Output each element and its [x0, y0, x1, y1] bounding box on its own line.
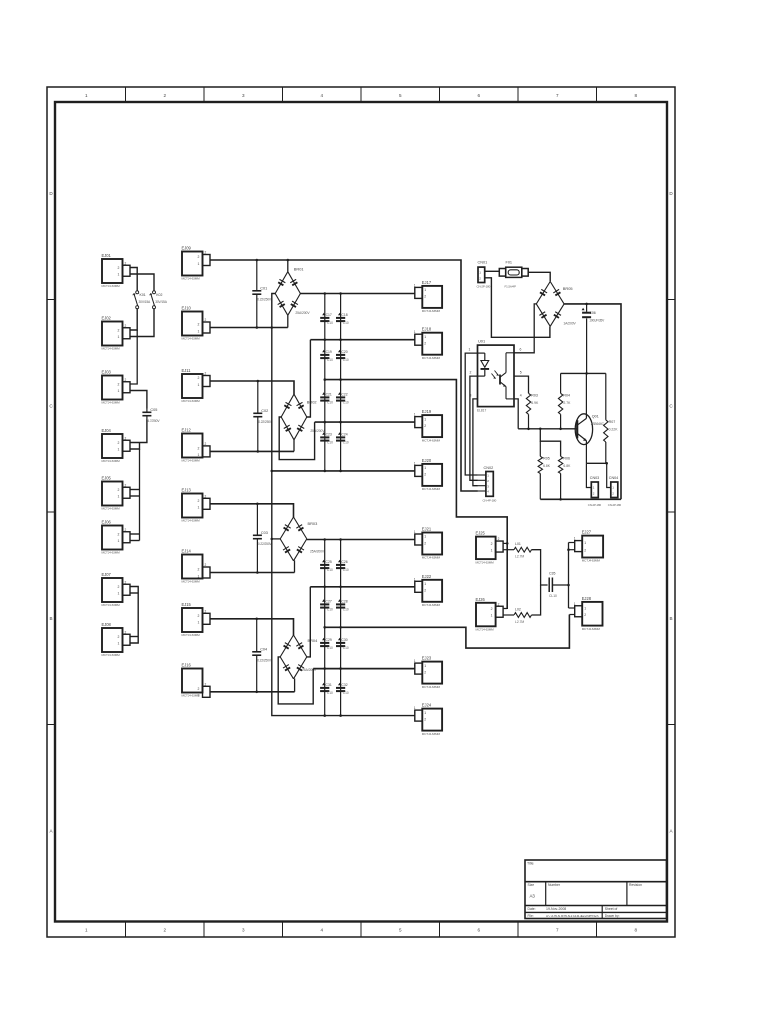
wire EJ26 pin1 to L02: [504, 614, 514, 616]
wire ground rail: [540, 498, 621, 500]
wire: [131, 587, 139, 644]
svg-text:2: 2: [491, 607, 493, 611]
svg-text:EJ27: EJ27: [582, 530, 592, 535]
svg-text:1: 1: [491, 548, 493, 552]
wire BR02 left loop: [279, 417, 314, 460]
svg-text:C10: C10: [327, 401, 333, 405]
svg-text:EJ02: EJ02: [102, 316, 112, 321]
svg-text:Date:: Date:: [528, 907, 536, 911]
svg-text:CN02: CN02: [484, 466, 494, 470]
svg-text:MCTJ4-63MM: MCTJ4-63MM: [102, 401, 121, 405]
svg-text:1: 1: [198, 621, 200, 625]
svg-text:2: 2: [424, 295, 426, 299]
connector EJ19: [414, 409, 442, 442]
junction: [339, 626, 342, 629]
svg-text:EJ12: EJ12: [182, 428, 192, 433]
capacitor C30: [336, 638, 349, 650]
svg-text:1: 1: [118, 389, 120, 393]
svg-text:1: 1: [469, 348, 471, 352]
svg-text:30V/15A: 30V/15A: [155, 300, 168, 304]
wire CN03 feed: [586, 463, 591, 487]
svg-text:1: 1: [491, 614, 493, 618]
capacitor C06: [582, 304, 605, 374]
wire EJ28 pin1: [569, 607, 575, 609]
svg-text:2: 2: [491, 542, 493, 546]
wire BR05 left to U01 pin6: [514, 304, 536, 353]
svg-text:Drawn by:: Drawn by:: [605, 914, 620, 918]
svg-text:EJ01: EJ01: [102, 253, 112, 258]
svg-text:2: 2: [198, 687, 200, 691]
svg-text:MCTJ4-63MM: MCTJ4-63MM: [422, 685, 441, 689]
svg-text:C24: C24: [341, 433, 347, 437]
svg-text:2: 2: [125, 324, 127, 328]
wire BR05 output rail: [564, 304, 621, 499]
connector EJ23: [414, 656, 442, 689]
svg-text:EJ18: EJ18: [422, 327, 432, 332]
svg-text:C27: C27: [326, 600, 332, 604]
svg-text:4: 4: [320, 93, 323, 98]
connector EJ28: [574, 596, 603, 631]
svg-text:2: 2: [125, 528, 127, 532]
junction: [323, 626, 326, 629]
svg-text:Title: Title: [527, 862, 534, 866]
svg-text:MCTJ4-63MM: MCTJ4-63MM: [182, 459, 201, 463]
capacitor C05: [142, 408, 160, 423]
svg-text:100UF/35V: 100UF/35V: [589, 319, 605, 323]
svg-text:MCTJ4-63MM: MCTJ4-63MM: [422, 309, 441, 313]
svg-text:C10: C10: [327, 358, 333, 362]
svg-text:C10: C10: [343, 568, 349, 572]
bridge rectifier BR02: [281, 394, 325, 440]
svg-text:5: 5: [520, 371, 522, 375]
border column ticks and numbers: [85, 87, 638, 937]
wire cap bank bus upper right: [340, 294, 342, 471]
svg-text:0.22/250V: 0.22/250V: [258, 420, 273, 424]
svg-text:2: 2: [198, 499, 200, 503]
wire EJ25 pin1 to L01: [504, 549, 514, 551]
svg-text:C10: C10: [327, 691, 333, 695]
wire: [293, 440, 295, 452]
svg-text:Number: Number: [548, 883, 561, 887]
wire U01 pin2 to CN02: [470, 376, 478, 480]
svg-text:MCTJ4-63MM: MCTJ4-63MM: [102, 551, 121, 555]
capacitor C04: [252, 619, 272, 692]
svg-text:MCTJ4-63MM: MCTJ4-63MM: [476, 628, 495, 632]
svg-text:EJ13: EJ13: [182, 488, 192, 493]
svg-text:1: 1: [414, 413, 416, 417]
svg-text:EJ10: EJ10: [182, 306, 192, 311]
connector EJ20: [414, 458, 442, 491]
svg-text:EJ03: EJ03: [102, 370, 112, 375]
wire EJ28 pin2: [569, 614, 574, 616]
svg-text:2SB646C: 2SB646C: [591, 422, 605, 426]
wire U01 pin5 to R03: [514, 376, 529, 393]
wire CN04 feed: [607, 463, 611, 487]
svg-text:EJ06: EJ06: [102, 520, 112, 525]
svg-text:25A/200V: 25A/200V: [295, 311, 310, 315]
connector EJ22: [414, 574, 442, 607]
connector EJ11: [182, 368, 211, 403]
connector CN04: [608, 476, 622, 507]
svg-text:2: 2: [118, 328, 120, 332]
svg-text:1: 1: [118, 495, 120, 499]
svg-text:2: 2: [198, 447, 200, 451]
svg-text:25A/200V: 25A/200V: [310, 429, 325, 433]
wire L02 to C35 node: [532, 585, 541, 615]
resistor R04: [558, 393, 571, 414]
inductor L01: [514, 542, 532, 558]
svg-text:2: 2: [424, 717, 426, 721]
svg-text:2: 2: [125, 378, 127, 382]
wire: [287, 315, 289, 327]
bridge rectifier BR04: [280, 635, 318, 679]
connector EJ13: [182, 488, 211, 523]
wire lower midpoint tap: [325, 615, 570, 649]
resistor R06: [558, 456, 571, 473]
capacitor C28: [336, 599, 349, 611]
svg-text:1: 1: [424, 288, 426, 292]
wire: [131, 268, 138, 292]
svg-text:1: 1: [198, 262, 200, 266]
svg-text:C01: C01: [260, 287, 267, 291]
svg-text:30V/15A: 30V/15A: [139, 300, 152, 304]
svg-text:C06: C06: [589, 311, 595, 315]
svg-text:1: 1: [85, 93, 88, 98]
svg-text:MCTJ4-63MM: MCTJ4-63MM: [422, 356, 441, 360]
junction: [324, 421, 327, 424]
capacitor C26: [336, 560, 349, 572]
wire: [131, 330, 138, 384]
svg-text:EJ21: EJ21: [422, 527, 432, 532]
wire rail EJ20: [272, 470, 415, 472]
svg-text:6.8K: 6.8K: [563, 464, 571, 468]
wire EJ25 pin2: [504, 542, 508, 544]
svg-text:C10: C10: [343, 646, 349, 650]
svg-text:2: 2: [118, 441, 120, 445]
connector EJ05: [102, 476, 131, 511]
wire: [131, 309, 138, 331]
svg-text:2: 2: [498, 537, 500, 541]
connector EJ08: [102, 622, 131, 657]
svg-text:0.22K: 0.22K: [609, 428, 619, 432]
junction: [339, 338, 342, 341]
transistor Q01: [575, 373, 604, 463]
svg-text:L02: L02: [515, 607, 521, 611]
svg-text:5: 5: [399, 928, 402, 933]
wire: [294, 679, 296, 692]
svg-text:R06: R06: [563, 457, 570, 461]
svg-text:1: 1: [424, 335, 426, 339]
svg-text:C10: C10: [343, 441, 349, 445]
svg-text:EJ28: EJ28: [582, 596, 592, 601]
wire: [294, 560, 296, 572]
svg-text:2: 2: [125, 580, 127, 584]
wire R06 bottom: [560, 474, 562, 500]
svg-text:2: 2: [125, 630, 127, 634]
svg-text:2: 2: [118, 635, 120, 639]
svg-text:CN01: CN01: [478, 261, 488, 265]
svg-text:2.7K: 2.7K: [563, 401, 571, 405]
wire BR04 output: [307, 587, 311, 657]
svg-text:C28: C28: [341, 600, 347, 604]
wire EJ15: [210, 619, 294, 635]
switch K02: [149, 291, 167, 309]
svg-text:1: 1: [414, 330, 416, 334]
wire BR03 left stub: [272, 538, 280, 540]
svg-text:MCTJ4-63MM: MCTJ4-63MM: [422, 603, 441, 607]
svg-text:F01: F01: [506, 261, 513, 265]
svg-text:1: 1: [574, 537, 576, 541]
wire BR01 output: [300, 293, 414, 295]
svg-text:1: 1: [118, 273, 120, 277]
junction: [339, 586, 342, 589]
wire cap bank bus upper left: [324, 294, 326, 471]
svg-text:1A/200V: 1A/200V: [563, 321, 576, 325]
connector EJ15: [182, 602, 211, 637]
wire: [139, 449, 141, 541]
svg-text:4: 4: [320, 928, 323, 933]
svg-text:Size: Size: [528, 883, 535, 887]
svg-text:2: 2: [424, 342, 426, 346]
svg-text:2: 2: [198, 376, 200, 380]
svg-text:7: 7: [556, 93, 559, 98]
svg-text:C10: C10: [327, 568, 333, 572]
svg-text:2: 2: [198, 614, 200, 618]
connector EJ26: [476, 597, 504, 632]
wire C35 to EJ27/EJ28 bus: [552, 584, 568, 586]
svg-text:8: 8: [634, 93, 637, 98]
fuse F01: [499, 261, 528, 289]
wire rail EJ23: [313, 668, 415, 670]
capacitor C32: [336, 683, 349, 695]
svg-text:C23: C23: [326, 433, 332, 437]
capacitor C35: [549, 572, 557, 599]
wire CN02 pin stubs: [478, 474, 486, 476]
svg-text:U01: U01: [478, 338, 485, 343]
svg-text:BR03: BR03: [308, 521, 318, 526]
capacitor C25: [320, 560, 333, 572]
inductor L02: [514, 607, 532, 623]
connector EJ06: [102, 520, 131, 555]
svg-text:6: 6: [477, 928, 480, 933]
svg-text:C10: C10: [343, 321, 349, 325]
svg-text:8: 8: [634, 928, 637, 933]
svg-text:EJ08: EJ08: [102, 622, 112, 627]
wire R07 top: [605, 373, 607, 420]
svg-text:5: 5: [399, 93, 402, 98]
svg-text:C20: C20: [341, 350, 347, 354]
wire EJ27 pin1: [569, 542, 575, 544]
svg-text:1: 1: [198, 383, 200, 387]
svg-text:2: 2: [118, 382, 120, 386]
svg-text:L2.7M: L2.7M: [515, 620, 524, 624]
svg-text:BR04: BR04: [308, 638, 319, 643]
svg-text:C17: C17: [326, 313, 332, 317]
svg-text:1: 1: [424, 582, 426, 586]
capacitor C18: [336, 313, 349, 325]
svg-text:BR02: BR02: [307, 400, 317, 405]
svg-text:2: 2: [584, 548, 586, 552]
svg-text:EJ04: EJ04: [102, 428, 112, 433]
connector EJ14: [182, 549, 211, 584]
svg-text:2: 2: [205, 563, 207, 567]
svg-text:C32: C32: [341, 683, 347, 687]
svg-text:Q01: Q01: [592, 415, 599, 419]
svg-text:C25: C25: [326, 560, 332, 564]
svg-text:2: 2: [125, 261, 127, 265]
svg-text:CL10: CL10: [549, 594, 557, 598]
svg-text:2: 2: [470, 371, 472, 375]
svg-text:MCTJ4-63MM: MCTJ4-63MM: [182, 633, 201, 637]
wire F01 to BR05 top: [528, 272, 550, 281]
svg-text:MCTJ4-63MM: MCTJ4-63MM: [182, 277, 201, 281]
svg-text:C03: C03: [261, 531, 268, 535]
svg-text:K02: K02: [156, 293, 162, 297]
svg-text:C26: C26: [341, 560, 347, 564]
svg-text:K01: K01: [140, 293, 146, 297]
svg-text:MCTJ4-63MM: MCTJ4-63MM: [102, 459, 121, 463]
svg-text:2: 2: [205, 318, 207, 322]
capacitor C27: [320, 599, 333, 611]
svg-text:2: 2: [125, 483, 127, 487]
connector EJ16: [182, 663, 211, 698]
resistor R03: [526, 393, 539, 414]
wire U01 pin1 to CN02: [465, 353, 478, 475]
wire Vcc rail: [561, 372, 606, 374]
wire upper midpoint tap: [325, 380, 507, 609]
svg-text:EJ23: EJ23: [422, 656, 432, 661]
svg-text:2: 2: [205, 251, 207, 255]
svg-text:MCTJ4-63MM: MCTJ4-63MM: [182, 337, 201, 341]
svg-text:1: 1: [118, 592, 120, 596]
wire R05 bottom: [539, 474, 541, 500]
svg-text:R04: R04: [563, 394, 570, 398]
switch K01: [133, 291, 151, 309]
capacitor C29: [320, 638, 333, 650]
svg-text:1: 1: [198, 329, 200, 333]
svg-text:1: 1: [118, 448, 120, 452]
svg-text:C02: C02: [261, 409, 268, 413]
connector EJ02: [102, 316, 131, 351]
svg-text:1: 1: [574, 602, 576, 606]
connector CN03: [588, 476, 602, 507]
wire: [131, 540, 140, 542]
wire EJ27 pin2: [569, 549, 575, 551]
wire EJ13: [210, 504, 294, 517]
svg-text:C10: C10: [343, 358, 349, 362]
wire U01 pin4 to base rail: [514, 399, 518, 429]
junction: [323, 714, 326, 717]
svg-text:0.22/250V: 0.22/250V: [257, 298, 272, 302]
svg-text:4: 4: [520, 393, 522, 397]
svg-text:Sheet of: Sheet of: [605, 907, 618, 911]
svg-text:EJ24: EJ24: [422, 703, 432, 708]
svg-text:2: 2: [198, 568, 200, 572]
svg-text:BR05: BR05: [563, 286, 573, 291]
wire R04 top: [560, 373, 562, 393]
connector EJ10: [182, 306, 211, 341]
svg-text:R07: R07: [609, 420, 616, 424]
svg-text:MCTJ4-63MM: MCTJ4-63MM: [422, 487, 441, 491]
wire: [131, 636, 139, 638]
connector EJ09: [182, 246, 211, 281]
svg-text:A3: A3: [530, 894, 536, 899]
svg-text:25A/200V: 25A/200V: [310, 550, 325, 554]
svg-text:1: 1: [414, 706, 416, 710]
connector CN01: [477, 261, 491, 289]
svg-text:EJ05: EJ05: [102, 476, 112, 481]
svg-text:1: 1: [85, 928, 88, 933]
svg-text:2: 2: [424, 541, 426, 545]
svg-text:R05: R05: [543, 457, 550, 461]
capacitor C01: [252, 260, 272, 328]
svg-text:C10: C10: [327, 646, 333, 650]
junction: [324, 378, 327, 381]
svg-text:MCTJ4-63MM: MCTJ4-63MM: [182, 580, 201, 584]
capacitor C02: [253, 381, 273, 451]
junction: [323, 667, 326, 670]
svg-text:EJ09: EJ09: [182, 246, 192, 251]
svg-text:MCTJ4-63MM: MCTJ4-63MM: [582, 559, 601, 563]
wire EJ10: [210, 327, 288, 329]
connector EJ12: [182, 428, 211, 463]
svg-text:2: 2: [584, 613, 586, 617]
wire cap bank bus lower right: [340, 540, 342, 716]
svg-text:MCTJ4-63MM: MCTJ4-63MM: [476, 560, 495, 564]
svg-text:1: 1: [414, 283, 416, 287]
wire: [131, 420, 147, 443]
junction: [339, 470, 342, 473]
wire: [287, 260, 289, 272]
svg-text:MCTJ4-63MM: MCTJ4-63MM: [102, 653, 121, 657]
wire EJ09 top bus: [210, 260, 478, 491]
svg-text:BR01: BR01: [294, 267, 304, 272]
svg-text:1: 1: [424, 535, 426, 539]
svg-text:2: 2: [205, 682, 207, 686]
bridge rectifier BR01: [275, 267, 310, 316]
svg-text:F1.5A/4P: F1.5A/4P: [505, 285, 516, 289]
bridge rectifier BR03: [280, 517, 325, 561]
wire base rail: [518, 428, 576, 430]
svg-text:L2.7M: L2.7M: [515, 555, 524, 559]
svg-text:2: 2: [118, 585, 120, 589]
svg-text:C35: C35: [549, 572, 555, 576]
junction: [324, 470, 327, 473]
svg-text:6.9K: 6.9K: [531, 401, 539, 405]
wire: [131, 391, 147, 409]
capacitor C03: [253, 504, 273, 573]
svg-text:C19: C19: [326, 350, 332, 354]
wire R03 bottom: [528, 414, 530, 429]
svg-text:EJ11: EJ11: [182, 368, 192, 373]
svg-text:2: 2: [498, 602, 500, 606]
svg-text:MCTJ4-63MM: MCTJ4-63MM: [102, 603, 121, 607]
svg-text:2: 2: [118, 266, 120, 270]
svg-text:1: 1: [118, 642, 120, 646]
svg-text:EJ17: EJ17: [422, 280, 432, 285]
svg-text:CN-4P-180: CN-4P-180: [483, 498, 497, 502]
svg-text:1: 1: [198, 574, 200, 578]
wire: [131, 309, 155, 337]
svg-text:MCTJ4-63MM: MCTJ4-63MM: [102, 347, 121, 351]
svg-text:EJ25: EJ25: [476, 531, 486, 536]
svg-text:L01: L01: [515, 542, 521, 546]
svg-text:2: 2: [163, 928, 166, 933]
svg-text:A:\..\J-76-N JF76-N-2.12J2-dia: A:\..\J-76-N JF76-N-2.12J2-dianchiPH.Sch: [546, 914, 599, 918]
wire EJ11: [210, 381, 294, 394]
wire: [131, 443, 140, 450]
capacitor C17: [320, 313, 333, 325]
